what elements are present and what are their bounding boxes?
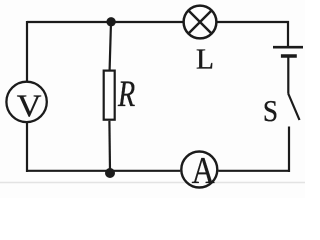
wire top-right horizontal bbox=[217, 21, 289, 23]
label V bbox=[17, 89, 42, 125]
wire bottom-right horizontal bbox=[218, 170, 290, 172]
wire switch to bottom corner bbox=[288, 127, 290, 173]
voltmeter V1 circle bbox=[6, 82, 46, 122]
wire battery to switch bbox=[287, 58, 289, 94]
svg-text:V: V bbox=[17, 89, 42, 125]
junction dot bottom bbox=[105, 168, 115, 178]
label R bbox=[117, 74, 135, 115]
wire middle branch upper bbox=[110, 22, 111, 70]
wire top-left horizontal bbox=[27, 21, 183, 23]
junction dot top bbox=[106, 17, 115, 26]
svg-text:L: L bbox=[196, 44, 214, 75]
svg-text:S: S bbox=[263, 95, 278, 129]
svg-text:R: R bbox=[117, 74, 135, 115]
wire bottom-left horizontal bbox=[26, 170, 180, 172]
svg-text:A: A bbox=[192, 149, 216, 191]
battery B1 long plate bbox=[273, 46, 303, 49]
lamp L cross bbox=[189, 11, 212, 34]
scan streak bbox=[0, 182, 305, 184]
resistor R rect bbox=[104, 71, 115, 120]
wire left vertical upper bbox=[26, 21, 28, 81]
ammeter A1 circle bbox=[181, 152, 217, 188]
switch S blade bbox=[288, 94, 299, 121]
label L bbox=[196, 44, 214, 75]
label S bbox=[263, 95, 278, 129]
battery B1 short plate bbox=[281, 54, 297, 57]
label A bbox=[192, 149, 216, 191]
wire right vertical to battery bbox=[287, 21, 289, 47]
wire middle branch lower bbox=[108, 121, 111, 171]
wire left vertical lower bbox=[26, 123, 28, 172]
lamp L circle bbox=[184, 6, 217, 39]
